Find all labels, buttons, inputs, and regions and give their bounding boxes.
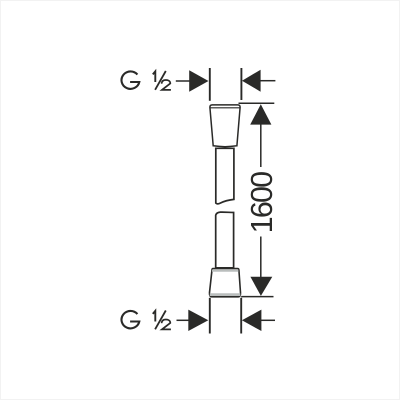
- svg-text:1600: 1600: [245, 172, 279, 233]
